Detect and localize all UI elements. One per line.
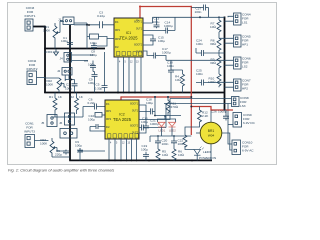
svg-text:RIP1: RIP1 [106, 111, 112, 113]
junction dot red y97 R11 [167, 96, 169, 98]
wire CON2 to bus [37, 77, 46, 79]
svg-text:100µ: 100µ [141, 120, 148, 124]
junction dot ground bus x118 [117, 92, 119, 94]
connector CON5 (HP1) [219, 35, 251, 48]
svg-text:100µ: 100µ [65, 86, 72, 90]
capacitor C11 100u [90, 124, 105, 131]
resistor R4 10 ohm [171, 70, 185, 93]
junction dot red rail IC1 drop [139, 6, 141, 8]
IC U1 TEA2025 [114, 18, 143, 57]
jumper J5 [41, 115, 57, 127]
svg-text:2.2K: 2.2K [202, 114, 209, 118]
resistor R6 10 ohm [172, 149, 184, 160]
svg-text:GND1: GND1 [44, 50, 53, 54]
svg-text:W04: W04 [208, 134, 215, 138]
svg-text:10Ω: 10Ω [210, 25, 216, 29]
svg-text:BR1: BR1 [208, 129, 215, 133]
potentiometer VR1 100K [43, 22, 64, 49]
capacitor C17 1000u [143, 47, 171, 60]
svg-text:C26: C26 [211, 110, 217, 114]
IC1 bottom pin wires to ground [105, 52, 142, 93]
svg-text:39Ω: 39Ω [210, 42, 216, 46]
svg-text:TEA 2025: TEA 2025 [113, 117, 132, 122]
jumper J2 [57, 68, 72, 82]
svg-text:0.22µ: 0.22µ [97, 14, 105, 18]
svg-text:1000µ: 1000µ [218, 110, 227, 114]
capacitor C16 100u [139, 105, 149, 133]
svg-text:10Ω: 10Ω [175, 78, 181, 82]
capacitor C20 100n [155, 136, 169, 149]
svg-text:100µ: 100µ [90, 41, 97, 45]
wire: red rail to IC2 [121, 96, 191, 98]
wire: main ground bus x70 [69, 25, 71, 160]
capacitor C26 1000u [211, 110, 229, 121]
svg-text:100n: 100n [196, 42, 203, 46]
svg-text:100n: 100n [195, 10, 202, 14]
wire: diode output rail y136 [150, 135, 191, 137]
wire: red main vertical [190, 6, 192, 135]
connector CON7 (HP2) [219, 79, 251, 92]
svg-text:J2: J2 [57, 69, 61, 73]
svg-text:OUT2: OUT2 [136, 52, 143, 54]
svg-text:LED1: LED1 [159, 128, 166, 132]
wire: input bus CON1 horizontal [33, 26, 45, 28]
svg-text:39Ω: 39Ω [210, 61, 216, 65]
junction dot red y97 C18 [154, 96, 156, 98]
junction dot red y97 x191 [190, 96, 192, 98]
svg-text:R2: R2 [70, 95, 74, 99]
svg-text:10Ω: 10Ω [178, 153, 184, 157]
wire: bottom ground bus y160 [69, 159, 212, 161]
ground symbol GND1 [44, 49, 59, 56]
svg-text:J4: J4 [60, 57, 64, 61]
resistor R9 39 ohm [210, 53, 221, 74]
svg-text:1000µ: 1000µ [150, 122, 159, 126]
svg-text:100µ: 100µ [146, 101, 153, 105]
svg-text:100n: 100n [162, 142, 169, 146]
junction dot diode rail x158 [157, 135, 159, 137]
svg-text:INPUT1: INPUT1 [24, 14, 35, 18]
capacitor C21 1000u [139, 104, 166, 131]
capacitor C9 100u [75, 140, 83, 160]
wire: BR1 left AC stub [196, 132, 200, 134]
svg-text:100K: 100K [46, 83, 54, 87]
svg-text:1000µ: 1000µ [164, 24, 173, 28]
capacitor C10 100u [88, 113, 105, 122]
capacitor C24 100n [196, 39, 225, 57]
svg-text:IC2: IC2 [119, 113, 125, 117]
wire CON1 to VR3 [35, 140, 49, 143]
capacitor C15 100u [143, 35, 165, 45]
svg-text:220µ: 220µ [55, 153, 62, 157]
wire: AC bus down right [228, 104, 232, 145]
svg-text:HP1: HP1 [242, 43, 248, 47]
svg-text:100n: 100n [178, 142, 185, 146]
capacitor C8 100u [90, 39, 107, 58]
connector CON6 (LS2) [166, 57, 251, 70]
svg-text:INPUT3: INPUT3 [24, 130, 35, 134]
wire: right speaker bus x224.5 [224, 17, 226, 110]
wire: red stub into IC2 top [120, 96, 122, 100]
svg-text:6-9V AC: 6-9V AC [242, 149, 254, 153]
svg-text:Fig. 1: Circuit diagram of aud: Fig. 1: Circuit diagram of audio amplifi… [8, 168, 114, 173]
svg-text:TEA 2025: TEA 2025 [120, 36, 139, 41]
svg-text:LS3: LS3 [240, 104, 246, 108]
connector CON3 (INPUT3) [24, 122, 48, 148]
wire: red drop to IC1 [139, 6, 141, 18]
svg-text:OUT1: OUT1 [132, 111, 139, 113]
IC2 bottom pin wires to ground [78, 139, 137, 160]
svg-text:100µ: 100µ [75, 144, 82, 148]
svg-text:J6: J6 [59, 121, 63, 125]
jumper J6 [59, 113, 75, 125]
svg-text:LS1: LS1 [242, 21, 248, 25]
capacitor C27 100n [191, 5, 208, 18]
svg-text:RIP2: RIP2 [106, 119, 112, 121]
capacitor C18b 100u power [139, 97, 156, 116]
capacitor C1 100u [61, 36, 73, 49]
resistor R5 10 ohm [156, 149, 168, 160]
svg-text:HP2: HP2 [242, 87, 248, 91]
connector CON4 (LS1) [225, 13, 251, 26]
junction dot bottom bus x149 [148, 159, 150, 161]
svg-text:J5: J5 [41, 121, 45, 125]
svg-text:100µ: 100µ [141, 148, 148, 152]
svg-text:IC1: IC1 [126, 31, 132, 35]
svg-text:470Ω: 470Ω [171, 105, 179, 109]
capacitor C13 100u [143, 17, 160, 29]
capacitor C5b 0.33u [95, 83, 108, 93]
svg-text:100µ: 100µ [88, 81, 95, 85]
junction dot red y106.5 [190, 106, 192, 108]
junction dot red bus cross [224, 109, 226, 111]
capacitor C3 0.22u [74, 11, 114, 29]
wire: BR1 to CON10 lower pin [222, 133, 232, 150]
svg-text:RIP1: RIP1 [115, 30, 121, 32]
svg-text:100K: 100K [43, 29, 51, 33]
resistor R2 1K [70, 93, 84, 115]
wire: diode bracket [158, 116, 176, 122]
capacitor C25 100n [196, 69, 219, 86]
svg-text:BOOT2: BOOT2 [130, 126, 139, 128]
junction dot speaker line x200 [199, 16, 201, 18]
resistor R12 2.2K [185, 107, 209, 136]
junction dots IC2 pins on bottom bus [108, 160, 137, 162]
border frame [8, 3, 277, 165]
junction dot ground bus x171 [170, 92, 172, 94]
svg-text:LS2: LS2 [242, 65, 248, 69]
svg-text:100µ: 100µ [90, 53, 97, 57]
capacitor C5 220u [55, 149, 69, 157]
connector CON8 (LS3) [164, 96, 249, 108]
capacitor C14 1000u [143, 17, 175, 33]
diode LED2a [169, 122, 177, 136]
junction dot C3 node [88, 24, 90, 26]
resistor R1 1K [49, 93, 63, 118]
svg-text:100µ: 100µ [158, 39, 165, 43]
svg-text:INPUT2: INPUT2 [26, 67, 37, 71]
capacitor C4b 300p [65, 79, 78, 93]
jumper J4 [60, 53, 94, 63]
junction dot speaker line x219 [218, 16, 220, 18]
wire: IC2 out to CON8 [139, 99, 170, 120]
svg-text:100K: 100K [40, 142, 48, 146]
connector CON9 (6-9V DC) [233, 113, 256, 128]
connector CON2 (INPUT2) [26, 59, 45, 85]
junction dots IC1 pins on mid bus [117, 92, 142, 94]
svg-text:LED2: LED2 [169, 128, 176, 132]
wire: BR1 plus to DC node [210, 110, 212, 122]
IC U2 TEA2025 [105, 100, 139, 139]
resistor R11 470 ohm [155, 97, 181, 116]
potentiometer VR2 100K [45, 78, 66, 93]
wire: +V red top rail [140, 6, 191, 8]
svg-text:POWER ON: POWER ON [199, 156, 216, 160]
capacitor C19 100u [141, 136, 150, 160]
svg-text:100n: 100n [196, 72, 203, 76]
svg-text:100µ: 100µ [88, 118, 95, 122]
svg-text:10Ω: 10Ω [162, 153, 168, 157]
svg-text:BOOT1: BOOT1 [130, 104, 139, 106]
resistor R8 39 ohm [210, 38, 221, 53]
wire: left signal bus vertical x45 [44, 26, 46, 93]
junction dot LED rail x165 [164, 115, 166, 117]
junction dot bottom bus x192 [191, 159, 193, 161]
jumper J1 [58, 17, 87, 49]
wire: mid ground bus y92.5 [44, 92, 225, 94]
wire: GND1 line y47 [44, 48, 105, 50]
svg-text:0.33µ: 0.33µ [95, 86, 103, 90]
svg-text:RIP2: RIP2 [115, 39, 121, 41]
capacitor C4 100u [87, 34, 114, 45]
connector CON1 (INPUT1) [24, 6, 35, 31]
capacitor C9b 100u [88, 72, 98, 93]
resistor R7 10 ohm [210, 17, 221, 38]
svg-text:LED3: LED3 [203, 150, 211, 154]
capacitor C18a 100n [167, 60, 174, 92]
LED LED3 power-on [185, 146, 216, 160]
connector CON10 (6-9V AC) [232, 140, 254, 155]
svg-text:BOOT2: BOOT2 [134, 45, 143, 47]
potentiometer VR3 100K [40, 138, 70, 157]
bridge rectifier BR1 [200, 122, 222, 144]
svg-text:100µ: 100µ [153, 20, 160, 24]
wire: red supply to CON9 [191, 107, 233, 111]
junction dot diode rail x174 [173, 135, 175, 137]
svg-text:100n: 100n [167, 64, 174, 68]
resistor R13 [183, 135, 187, 147]
wire: speaker line y17.3 [153, 16, 225, 18]
jumper J7 [60, 129, 77, 139]
capacitor C22 100n [171, 136, 185, 149]
svg-text:6-9V DC: 6-9V DC [243, 121, 256, 125]
resistor R10 100 ohm [208, 74, 221, 87]
capacitor C6 100u [84, 59, 96, 72]
diode LED1 [158, 122, 166, 136]
capacitor C6b 0.22u input IC2 [55, 98, 105, 118]
svg-text:OUT1: OUT1 [136, 29, 143, 31]
svg-text:R1: R1 [49, 95, 53, 99]
svg-text:100Ω: 100Ω [208, 80, 216, 84]
svg-text:1000µ: 1000µ [162, 50, 171, 54]
wire: BR1 minus to ground bus [210, 144, 212, 161]
wire: CON9 lower pin branch [228, 124, 233, 126]
